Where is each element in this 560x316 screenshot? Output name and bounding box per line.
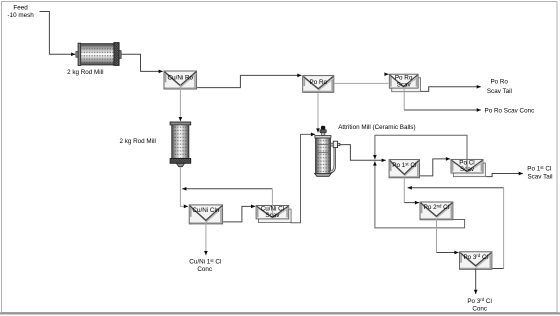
svg-text:Attrition Mill (Ceramic Balls): Attrition Mill (Ceramic Balls) xyxy=(338,124,415,131)
wire Po Ro conc down to attrition mill xyxy=(317,92,319,132)
wire Po 1st Cl conc into Po 2nd Cl xyxy=(404,202,419,204)
wire Po Ro tail to Po Ro Scav xyxy=(335,82,389,84)
wire Po Cl Scav tail out xyxy=(486,174,523,177)
wire Cu/Ni Cln tail to Cu/Ni Cl Scav xyxy=(223,206,255,222)
svg-text:Po 1st Cl: Po 1st Cl xyxy=(527,165,551,173)
wire Po 3rd Cl tail stub xyxy=(493,268,504,270)
flotation cell Po 2nd Cl xyxy=(420,202,453,220)
wire Cu/Ni Cln conc out xyxy=(205,222,207,256)
svg-text:Po 2nd Cl: Po 2nd Cl xyxy=(424,203,449,211)
flotation cell bank Po Ro Scav xyxy=(389,74,420,92)
flotation cell Cu/Ni Cln xyxy=(189,205,222,224)
flotation cell bank Po Cl Scav xyxy=(451,159,485,176)
wire Cu/Ni Ro tail to Po Ro xyxy=(197,75,301,87)
svg-text:Po 1st Cl: Po 1st Cl xyxy=(392,161,416,169)
vertical rod mill (2 kg Rod Mill regrind) xyxy=(170,122,191,167)
svg-text:Po 3rd Cl: Po 3rd Cl xyxy=(463,253,488,261)
wire Po Ro Scav feed arrow xyxy=(385,73,388,75)
flotation cell Po 3rd Cl xyxy=(460,252,492,269)
wire Po 1st Cl tail to Po Cl Scav xyxy=(420,159,450,176)
svg-text:Scav Tail: Scav Tail xyxy=(527,174,552,181)
wire Cu/Ni Ro conc down to regrind mill xyxy=(179,85,181,122)
svg-text:Conc: Conc xyxy=(472,306,487,313)
flotation cell bank Cu/Ni Cl Scav xyxy=(256,206,291,223)
wire Cu/Ni Cl Scav conc recycle to mill line xyxy=(182,188,272,190)
svg-text:Scav: Scav xyxy=(460,166,475,173)
svg-text:-10 mesh: -10 mesh xyxy=(7,12,34,19)
wire regrind mill discharge to Cu/Ni Cln xyxy=(180,167,188,207)
wire Po Ro Scav conc riser xyxy=(403,88,405,110)
bottom gray bar xyxy=(0,312,560,314)
wire Po 2nd Cl tail recycle to Po 1st Cl feed xyxy=(375,161,465,228)
svg-text:Conc: Conc xyxy=(197,266,212,273)
flotation cell Po 1st Cl xyxy=(389,160,419,178)
svg-text:Po Ro Scav Conc: Po Ro Scav Conc xyxy=(485,108,535,115)
svg-text:Scav: Scav xyxy=(397,81,412,88)
wire Cu/Ni Cl Scav tail to attrition mill xyxy=(290,134,315,222)
wire Po 1st Cl conc down xyxy=(403,178,405,203)
svg-text:2 kg Rod Mill: 2 kg Rod Mill xyxy=(119,138,155,145)
wire rod mill to Cu/Ni Ro xyxy=(121,54,163,71)
wire attrition mill discharge to Po 1st Cl xyxy=(340,145,386,161)
wire feed to rod mill xyxy=(40,12,76,55)
svg-text:Cu/Ni Cln: Cu/Ni Cln xyxy=(192,207,219,214)
svg-text:Po 3rd Cl: Po 3rd Cl xyxy=(467,297,492,305)
wire Po 2nd Cl conc down xyxy=(436,219,438,253)
wire Po Ro Scav conc out xyxy=(404,109,481,111)
wire Po 3rd Cl tail riser xyxy=(503,188,505,269)
svg-text:Po Ro: Po Ro xyxy=(490,79,508,86)
horizontal rod mill (2 kg Rod Mill) xyxy=(76,43,121,66)
svg-text:Feed: Feed xyxy=(13,5,28,12)
flotation cell Cu/Ni Ro xyxy=(164,71,197,89)
svg-text:Po Ro: Po Ro xyxy=(310,79,328,86)
wire Po 3rd Cl conc out xyxy=(475,269,477,295)
wire Po Ro Scav tail out xyxy=(421,87,481,92)
svg-text:Scav: Scav xyxy=(265,212,280,219)
flotation cell Po Ro xyxy=(303,76,334,93)
svg-text:2 kg Rod Mill: 2 kg Rod Mill xyxy=(67,69,103,76)
wire Po 3rd Cl tail recycle to Po 2nd Cl feed xyxy=(408,187,504,189)
svg-text:Cu/Ni 1st Cl: Cu/Ni 1st Cl xyxy=(189,258,221,266)
wire Po Cl Scav conc recycle to Po 1st Cl feed xyxy=(375,135,467,170)
svg-text:Scav Tail: Scav Tail xyxy=(487,88,512,95)
attrition mill (ceramic balls) xyxy=(315,126,340,177)
svg-text:Cu/Ni Ro: Cu/Ni Ro xyxy=(168,74,194,81)
wire Po 2nd Cl conc into Po 3rd Cl xyxy=(437,252,459,254)
wire Cu/Ni Cl Scav conc riser xyxy=(271,189,273,216)
